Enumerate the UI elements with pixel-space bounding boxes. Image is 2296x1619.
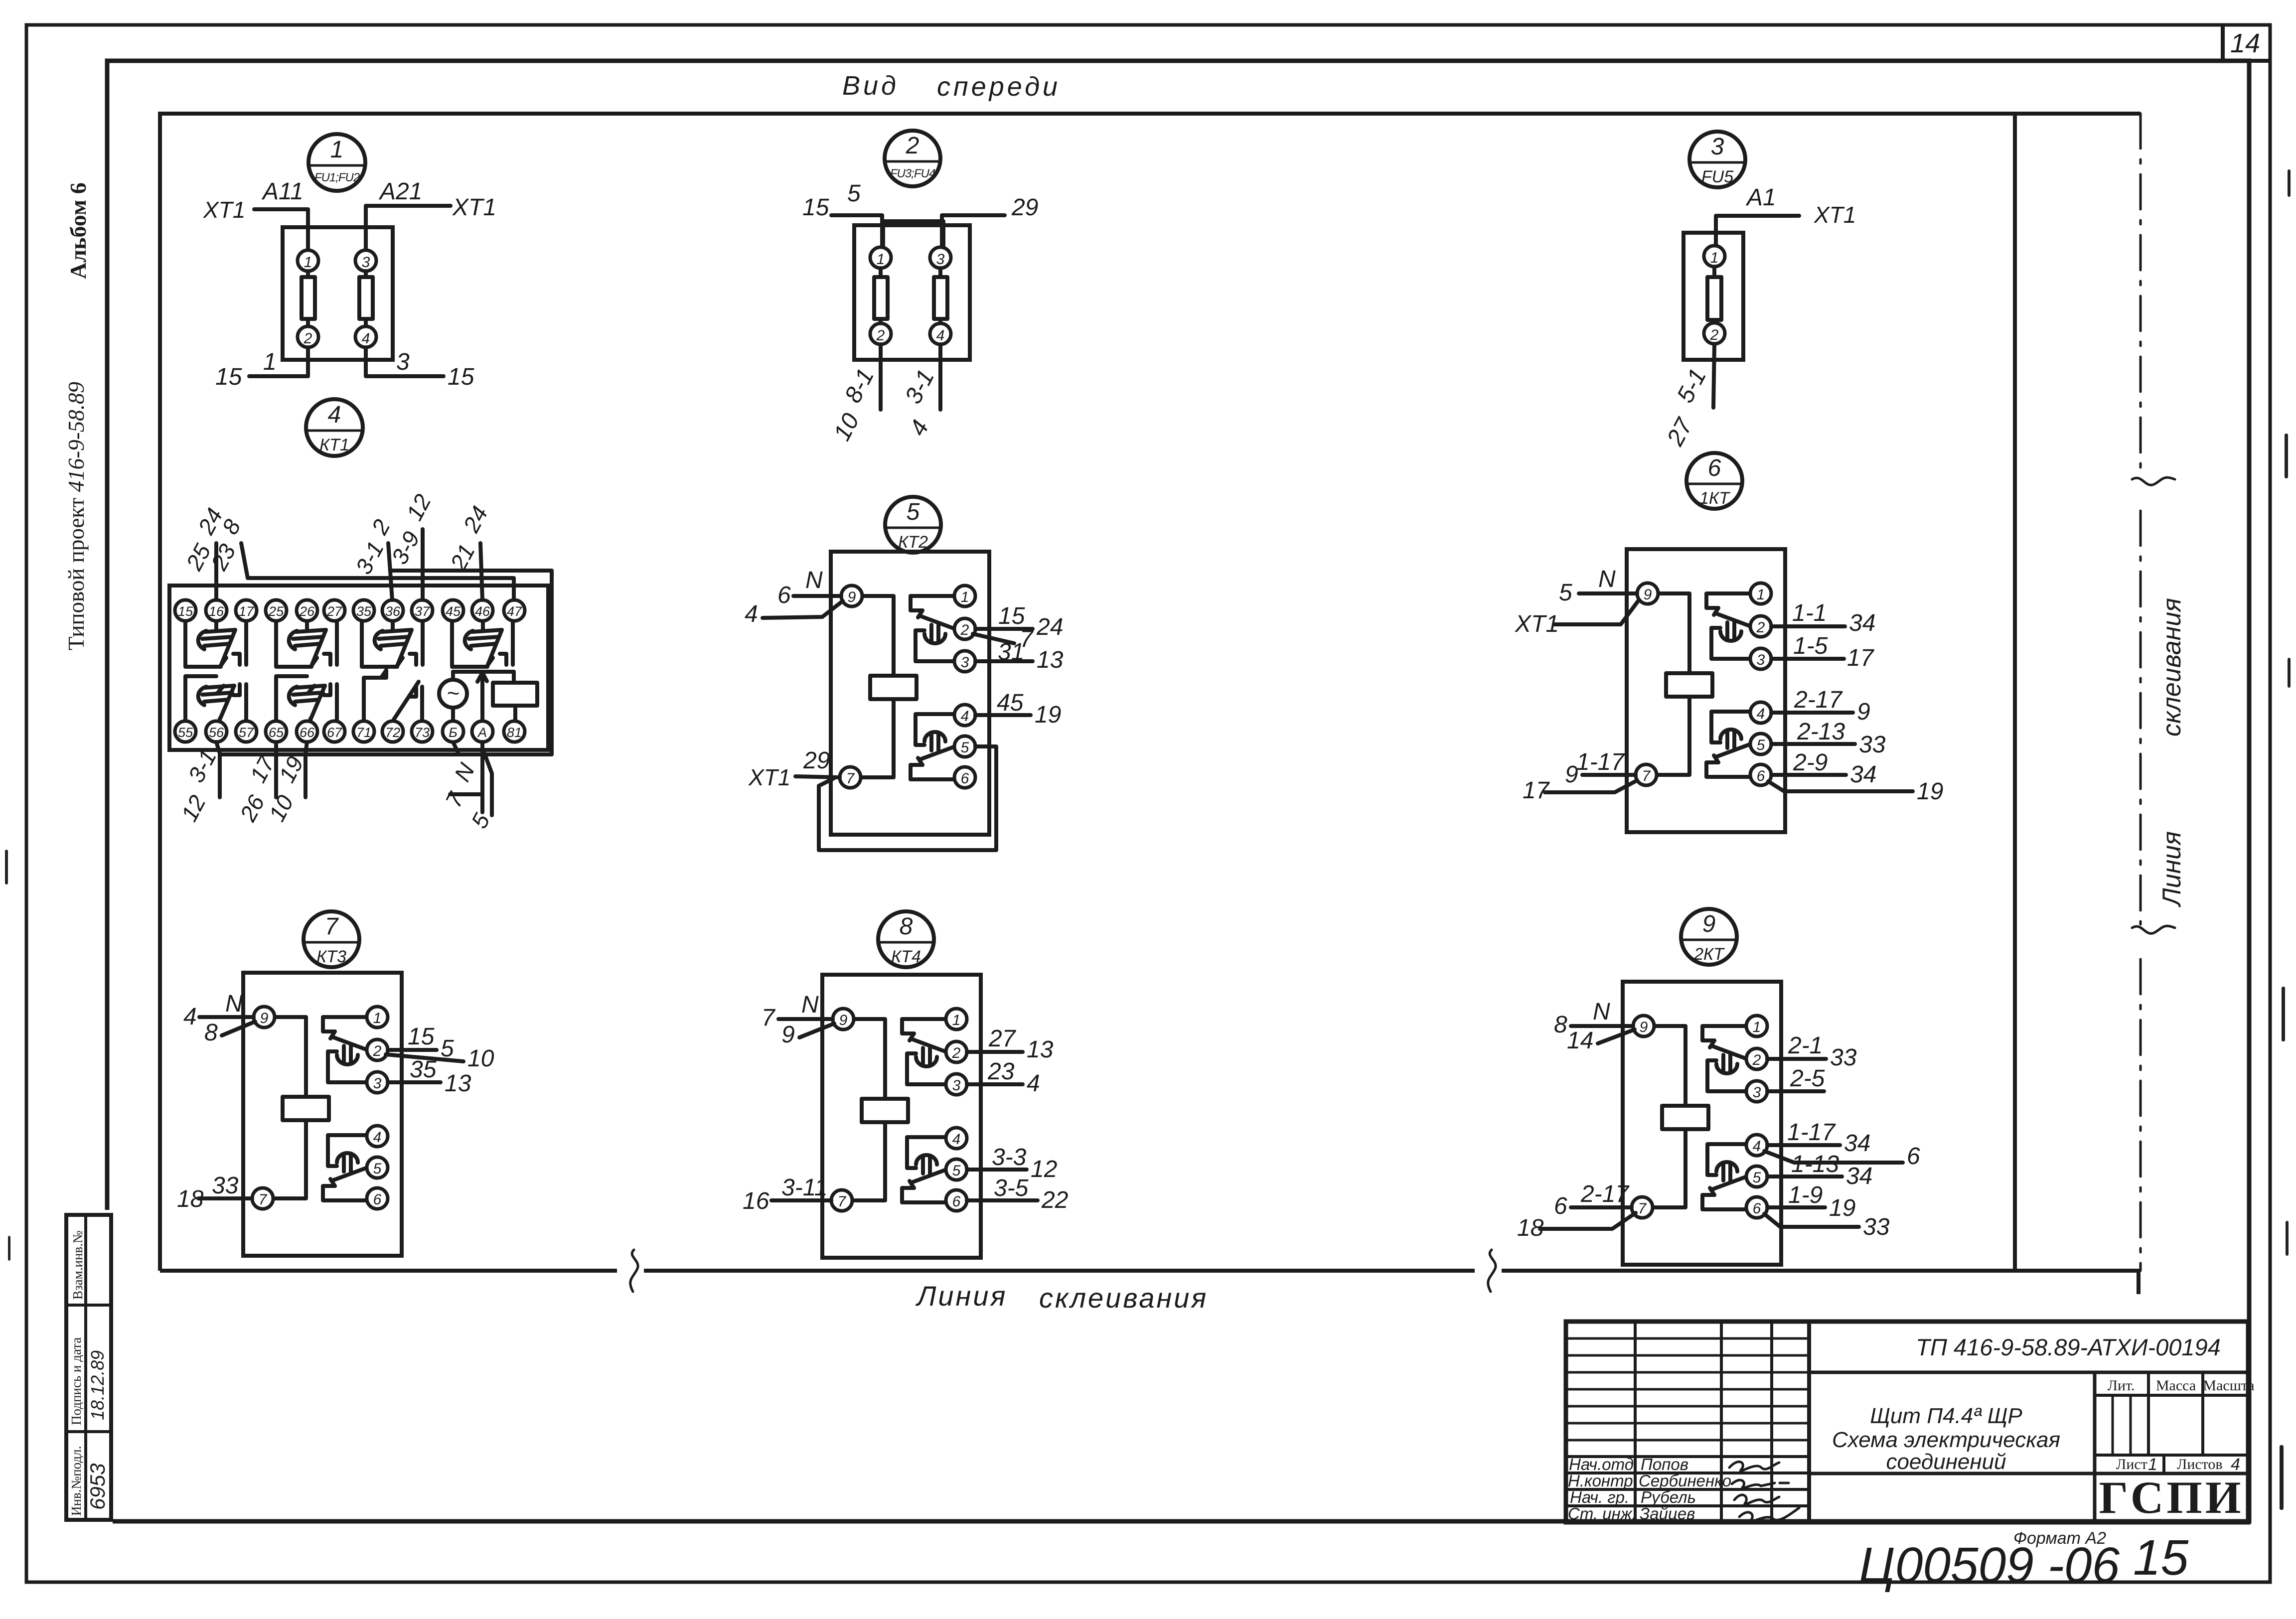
glue area frame: [160, 114, 2141, 1271]
1KT pin 1: [1750, 583, 1771, 604]
svg-text:5: 5: [847, 180, 861, 207]
svg-text:1: 1: [877, 251, 885, 268]
KT3 pin 1: [367, 1007, 388, 1028]
svg-text:ХТ1: ХТ1: [452, 194, 496, 221]
svg-text:1-9: 1-9: [1788, 1182, 1823, 1208]
page number cell 14: [2221, 25, 2225, 61]
svg-text:45: 45: [997, 690, 1024, 716]
svg-text:47: 47: [507, 604, 522, 619]
wire 3 to 15 bottom right: [366, 347, 444, 376]
svg-text:2: 2: [1752, 1052, 1761, 1068]
AC source element: [439, 680, 467, 708]
svg-text:9: 9: [1644, 587, 1652, 603]
svg-text:56: 56: [209, 725, 224, 740]
svg-text:6: 6: [1554, 1193, 1567, 1219]
KT4 pin 9: [833, 1009, 854, 1030]
svg-text:24: 24: [1036, 614, 1063, 640]
designator circle 7/KT3: [304, 911, 359, 967]
svg-text:25: 25: [268, 604, 284, 619]
svg-text:46: 46: [475, 604, 490, 619]
svg-text:4: 4: [373, 1129, 382, 1146]
svg-text:37: 37: [415, 604, 430, 619]
wire 25/24 to pin 16: [214, 543, 218, 600]
2KT contact group 4-5-6: [1702, 1144, 1747, 1209]
wire 5 to pin A: [484, 753, 492, 815]
svg-text:14: 14: [2230, 28, 2260, 58]
svg-text:3: 3: [362, 254, 370, 271]
1KT pin 7: [1636, 764, 1657, 785]
svg-text:Нач.отд: Нач.отд: [1569, 1455, 1634, 1473]
svg-text:2-17: 2-17: [1794, 687, 1843, 713]
svg-text:14: 14: [1567, 1028, 1593, 1054]
svg-text:15: 15: [2133, 1530, 2189, 1586]
KT4 pin 3: [946, 1074, 967, 1095]
svg-text:71: 71: [356, 725, 371, 740]
svg-text:~: ~: [447, 681, 459, 706]
svg-text:5: 5: [961, 739, 969, 756]
svg-text:ХТ1: ХТ1: [1814, 202, 1856, 228]
svg-text:Вид: Вид: [842, 71, 899, 101]
pin 1: [870, 247, 891, 268]
svg-text:6: 6: [1757, 768, 1765, 784]
svg-text:6: 6: [1907, 1143, 1920, 1170]
svg-text:4: 4: [952, 1131, 961, 1148]
left grid horizontals: [1566, 1337, 1809, 1340]
KT2 pin 4: [954, 705, 975, 726]
svg-text:склеивания: склеивания: [1039, 1282, 1208, 1314]
svg-text:13: 13: [445, 1070, 471, 1097]
svg-text:2-17: 2-17: [1580, 1181, 1630, 1207]
svg-text:1-17: 1-17: [1576, 749, 1625, 775]
svg-text:Ц00509 -06: Ц00509 -06: [1859, 1537, 2120, 1593]
2KT pin 4: [1746, 1135, 1767, 1156]
pin 1: [1704, 246, 1725, 267]
KT1 pin B slant wire: [453, 742, 459, 753]
1KT pin 9: [1637, 583, 1658, 604]
svg-text:2-5: 2-5: [1790, 1065, 1825, 1092]
svg-text:7: 7: [838, 1193, 847, 1210]
glue fold dash-dot line: [2140, 114, 2142, 476]
svg-text:19: 19: [1035, 702, 1061, 728]
svg-text:72: 72: [385, 725, 400, 740]
2KT contact group 1-2-3: [1702, 1026, 1747, 1091]
pin 1: [298, 250, 318, 271]
svg-text:ТП 416-9-58.89-АТХИ-00194: ТП 416-9-58.89-АТХИ-00194: [1916, 1334, 2221, 1360]
signatures scribbles: [1729, 1462, 1779, 1471]
svg-text:3-3: 3-3: [992, 1144, 1027, 1171]
right sub table: [2093, 1372, 2097, 1522]
svg-text:Лист: Лист: [2116, 1456, 2147, 1472]
wire 1 to 15 bottom left: [249, 347, 308, 376]
node line to coil: [453, 670, 514, 674]
svg-text:1: 1: [304, 254, 312, 271]
svg-text:34: 34: [1846, 1163, 1872, 1189]
fuse FU1: [306, 271, 310, 326]
KT2 pin 3: [954, 651, 975, 672]
KT3 pin 5: [367, 1157, 388, 1178]
KT4 pin 1: [946, 1009, 967, 1030]
svg-text:4: 4: [183, 1004, 197, 1030]
svg-text:N: N: [805, 567, 823, 593]
svg-text:3-11: 3-11: [781, 1175, 828, 1201]
svg-text:1: 1: [961, 589, 969, 605]
1KT pin 4: [1750, 702, 1771, 723]
2KT pin 1: [1746, 1016, 1767, 1036]
svg-text:16: 16: [743, 1188, 769, 1214]
svg-text:6: 6: [1753, 1200, 1761, 1217]
KT4 pin 2: [946, 1041, 967, 1062]
KT1 heater loop wire: [220, 571, 552, 754]
pin 3: [930, 247, 951, 268]
svg-text:А: А: [477, 725, 487, 740]
svg-text:45: 45: [446, 604, 461, 619]
svg-text:8: 8: [1554, 1012, 1567, 1038]
pin 2: [298, 326, 318, 347]
KT2 pin 7: [840, 767, 861, 788]
KT3 contact group 4-5-6: [323, 1135, 367, 1200]
svg-text:1: 1: [1753, 1019, 1761, 1035]
svg-text:Сербиненко: Сербиненко: [1639, 1472, 1731, 1490]
2KT pin 3: [1746, 1081, 1767, 1102]
svg-text:27: 27: [326, 604, 342, 619]
svg-text:7: 7: [1642, 768, 1651, 784]
svg-text:Лит.: Лит.: [2108, 1377, 2135, 1394]
svg-text:1: 1: [263, 349, 277, 375]
svg-text:2: 2: [960, 622, 969, 638]
svg-text:8: 8: [204, 1020, 218, 1046]
svg-text:1: 1: [373, 1010, 382, 1027]
svg-text:N: N: [225, 991, 243, 1017]
svg-text:29: 29: [803, 747, 830, 774]
wire 23/8 to pin 17 and pin 47: [241, 543, 514, 600]
svg-text:3: 3: [373, 1075, 382, 1092]
svg-text:Зайцев: Зайцев: [1640, 1504, 1695, 1523]
svg-text:13: 13: [1037, 647, 1064, 673]
svg-text:КТ4: КТ4: [891, 947, 921, 966]
svg-text:9: 9: [1640, 1019, 1648, 1035]
svg-text:FU1;FU2: FU1;FU2: [314, 171, 360, 184]
svg-text:4: 4: [2231, 1455, 2240, 1474]
svg-text:2: 2: [876, 327, 885, 344]
svg-text:2-1: 2-1: [1788, 1032, 1823, 1059]
svg-text:9: 9: [848, 589, 856, 605]
svg-text:6: 6: [373, 1191, 382, 1208]
svg-text:4: 4: [1027, 1070, 1040, 1097]
svg-text:4: 4: [328, 402, 341, 428]
1KT pin 5: [1750, 734, 1771, 754]
KT1 pins top row: [175, 600, 196, 621]
KT3 pin 6: [367, 1188, 388, 1209]
svg-text:ХТ1: ХТ1: [748, 764, 790, 790]
svg-text:2: 2: [952, 1045, 961, 1061]
KT3 pin 7: [252, 1188, 273, 1209]
svg-text:57: 57: [239, 725, 254, 740]
svg-text:9: 9: [1857, 699, 1870, 725]
1KT contact group 1-2-3: [1706, 593, 1751, 659]
KT3 pin 3: [367, 1072, 388, 1093]
svg-text:3: 3: [1757, 652, 1765, 668]
svg-text:33: 33: [212, 1173, 239, 1199]
KT2 contact group 4-5-6: [911, 714, 955, 779]
svg-text:Линия: Линия: [2157, 831, 2186, 907]
svg-text:2: 2: [373, 1043, 382, 1059]
svg-text:3-5: 3-5: [994, 1175, 1029, 1201]
svg-text:ХТ1: ХТ1: [203, 197, 245, 223]
wire 21/24 to pin 46: [480, 543, 482, 600]
svg-text:3: 3: [1711, 134, 1724, 160]
svg-text:15: 15: [215, 364, 242, 390]
svg-text:5: 5: [373, 1161, 382, 1177]
svg-text:3: 3: [1753, 1084, 1761, 1101]
svg-text:FU3;FU4: FU3;FU4: [890, 167, 935, 180]
svg-text:6: 6: [961, 770, 969, 787]
svg-text:1: 1: [952, 1012, 961, 1029]
1KT pin 2: [1750, 616, 1771, 637]
svg-text:23: 23: [987, 1058, 1015, 1085]
svg-text:N: N: [1598, 566, 1616, 592]
KT3 pin 9: [254, 1007, 275, 1028]
svg-text:Альбом 6: Альбом 6: [65, 182, 91, 279]
svg-text:Линия: Линия: [916, 1280, 1007, 1312]
svg-text:2КТ: 2КТ: [1693, 945, 1725, 964]
svg-text:34: 34: [1850, 761, 1876, 788]
svg-text:соединений: соединений: [1886, 1450, 2006, 1474]
svg-text:33: 33: [1859, 732, 1886, 758]
svg-text:спереди: спереди: [937, 72, 1061, 102]
designator circle 5/KT2: [885, 497, 941, 553]
1KT pin 6: [1750, 764, 1771, 785]
svg-text:Н.контр: Н.контр: [1568, 1472, 1633, 1490]
svg-text:N: N: [1593, 999, 1610, 1025]
wire 3-1/12 from pin 56: [216, 742, 220, 797]
contact 71-72-73: [364, 670, 386, 721]
svg-text:33: 33: [1830, 1044, 1857, 1071]
svg-text:13: 13: [1027, 1036, 1054, 1063]
left grid verticals: [1634, 1322, 1637, 1522]
wire 19/10 from pin 66: [306, 742, 307, 797]
KT3 pin 4: [367, 1126, 388, 1147]
svg-text:Типовой проект 416-9-58.89: Типовой проект 416-9-58.89: [64, 382, 89, 650]
svg-text:Масса: Масса: [2156, 1377, 2196, 1394]
svg-text:18.12.89: 18.12.89: [87, 1350, 108, 1420]
svg-text:29: 29: [1011, 194, 1038, 221]
break squiggle right: [1488, 1250, 1496, 1292]
svg-text:Попов: Попов: [1641, 1455, 1688, 1473]
svg-text:19: 19: [1917, 778, 1943, 805]
svg-text:4: 4: [961, 708, 969, 725]
svg-text:15: 15: [802, 194, 829, 221]
svg-text:8: 8: [900, 913, 913, 940]
KT4 pin 4: [946, 1128, 967, 1149]
fuse FU4: [938, 268, 942, 323]
break squiggle on fold line lower: [2132, 926, 2175, 933]
relay KT2 body: [831, 552, 989, 835]
svg-text:6: 6: [777, 582, 791, 608]
wire 17/26 from pin 65: [274, 742, 278, 797]
designator circle 9/2KT: [1681, 909, 1737, 965]
KT2 loop wire pin 5 around bottom: [819, 746, 996, 850]
contact 46-47: [452, 621, 513, 667]
svg-text:Б: Б: [449, 725, 458, 740]
designator circle 8/KT4: [878, 911, 934, 967]
svg-text:12: 12: [1031, 1156, 1057, 1182]
svg-text:1-5: 1-5: [1793, 633, 1828, 659]
wire 3-1/2 to pin 36: [388, 543, 392, 600]
svg-text:А1: А1: [1745, 184, 1776, 211]
svg-text:17: 17: [1847, 645, 1875, 671]
KT2 pin 2: [954, 618, 975, 639]
2KT pin 9: [1633, 1016, 1654, 1036]
fuse block body: [854, 225, 970, 360]
svg-text:81: 81: [507, 725, 522, 740]
svg-text:склеивания: склеивания: [2157, 598, 2186, 736]
svg-text:Ст. инж.: Ст. инж.: [1568, 1504, 1637, 1523]
svg-text:Взам.инв.№: Взам.инв.№: [70, 1230, 85, 1300]
svg-text:КТ3: КТ3: [316, 947, 346, 966]
svg-text:Схема электрическая: Схема электрическая: [1832, 1428, 2060, 1452]
svg-text:КТ1: КТ1: [319, 436, 349, 454]
svg-text:34: 34: [1849, 610, 1875, 636]
svg-text:Масшта: Масшта: [2203, 1377, 2254, 1394]
svg-text:1КТ: 1КТ: [1699, 489, 1730, 508]
svg-text:4: 4: [936, 327, 945, 344]
svg-text:2: 2: [304, 330, 312, 347]
svg-text:22: 22: [1041, 1187, 1068, 1213]
KT2 pin 1: [954, 586, 975, 606]
pin 4: [930, 323, 951, 344]
svg-text:9: 9: [781, 1022, 795, 1048]
wire 3-9/12 to pin 37: [421, 529, 425, 600]
svg-text:36: 36: [385, 604, 401, 619]
svg-text:67: 67: [327, 725, 342, 740]
svg-text:9: 9: [260, 1010, 269, 1027]
svg-text:34: 34: [1844, 1130, 1870, 1157]
svg-text:16: 16: [209, 604, 224, 619]
2KT pin 7: [1632, 1197, 1653, 1218]
pin 4: [355, 326, 376, 347]
svg-text:Инв.№подл.: Инв.№подл.: [69, 1446, 84, 1516]
svg-text:5: 5: [907, 499, 920, 525]
svg-text:Нач. гр.: Нач. гр.: [1570, 1488, 1629, 1506]
designator circle 3/FU5: [1689, 132, 1745, 187]
pin 2: [1704, 323, 1725, 344]
KT4 contact group 1-2-3: [902, 1019, 946, 1084]
svg-text:6953: 6953: [86, 1464, 109, 1510]
svg-text:10: 10: [467, 1045, 494, 1072]
KT4 pin 5: [946, 1159, 967, 1180]
svg-text:5: 5: [1757, 737, 1765, 753]
svg-text:4: 4: [745, 601, 758, 627]
wire 7/N to pin A: [480, 742, 484, 812]
svg-text:3: 3: [952, 1077, 961, 1094]
svg-text:7: 7: [846, 770, 855, 787]
2KT pin 6: [1746, 1197, 1767, 1218]
svg-text:1: 1: [330, 137, 344, 163]
KT1 body: [169, 586, 548, 750]
designator circle 1/FU1;FU2: [308, 134, 365, 191]
svg-text:15: 15: [408, 1024, 435, 1050]
svg-text:9: 9: [839, 1012, 848, 1029]
svg-text:FU5: FU5: [1701, 167, 1733, 186]
svg-text:7: 7: [325, 913, 339, 940]
fuse body: [1684, 233, 1743, 360]
svg-text:2: 2: [906, 133, 919, 159]
svg-text:2: 2: [1756, 619, 1765, 636]
svg-text:65: 65: [269, 725, 284, 740]
svg-text:Листов: Листов: [2177, 1456, 2223, 1472]
glue frame bottom line: [160, 1269, 617, 1273]
svg-text:1-13: 1-13: [1791, 1151, 1839, 1177]
KT4 pin 6: [946, 1190, 967, 1211]
svg-text:73: 73: [415, 725, 430, 740]
svg-text:27: 27: [988, 1026, 1017, 1052]
pin 3: [355, 250, 376, 271]
left stamp column table: [66, 1215, 111, 1520]
svg-text:1: 1: [1710, 250, 1719, 266]
2KT pin 2: [1746, 1048, 1767, 1069]
KT3 body: [243, 973, 402, 1256]
fuse FU5: [1712, 267, 1716, 323]
svg-text:5: 5: [952, 1163, 961, 1179]
contact 26-27: [276, 621, 337, 667]
svg-text:ГСПИ: ГСПИ: [2099, 1472, 2244, 1523]
break squiggle left: [630, 1250, 638, 1292]
svg-text:5: 5: [1559, 580, 1572, 606]
svg-text:А21: А21: [378, 178, 422, 205]
contact 36-37: [362, 621, 423, 667]
svg-text:2-9: 2-9: [1793, 749, 1828, 776]
contact 66-67: [276, 676, 337, 721]
svg-text:КТ2: КТ2: [898, 533, 928, 552]
wire 3-1/4 down right: [938, 344, 942, 410]
svg-text:3: 3: [961, 654, 969, 671]
1KT pin 3: [1750, 648, 1771, 669]
svg-text:1-1: 1-1: [1792, 600, 1827, 626]
svg-text:А11: А11: [261, 178, 304, 205]
fuse FU3: [879, 268, 883, 323]
jumper pin1-pin3: [883, 221, 943, 248]
svg-text:35: 35: [356, 604, 372, 619]
KT4 contact group 4-5-6: [902, 1137, 946, 1202]
glue frame right solid edge: [2013, 114, 2017, 1271]
svg-text:66: 66: [300, 725, 315, 740]
svg-text:35: 35: [410, 1056, 437, 1083]
svg-text:6: 6: [1708, 455, 1721, 481]
KT2 pin 9: [841, 586, 862, 606]
designator circle 2/FU3;FU4: [885, 131, 940, 186]
designator circle 4/KT1: [306, 399, 363, 456]
svg-text:3: 3: [936, 251, 945, 268]
KT2 pin 5: [954, 736, 975, 757]
KT3 pin 2: [367, 1039, 388, 1060]
wire 8-1/10 down left: [879, 344, 883, 410]
1KT body: [1627, 549, 1785, 832]
2KT pin 5: [1746, 1166, 1767, 1187]
KT2 contact group 1-2-3: [911, 596, 955, 661]
svg-text:19: 19: [1829, 1195, 1855, 1221]
contact 56-57: [185, 676, 246, 721]
1KT contact group 4-5-6: [1706, 712, 1751, 777]
svg-text:5: 5: [1753, 1170, 1761, 1186]
svg-text:Щит П4.4ª ЩР: Щит П4.4ª ЩР: [1870, 1404, 2022, 1428]
wire 5-1/27 down: [1713, 344, 1714, 408]
svg-text:N: N: [801, 992, 819, 1018]
svg-text:3: 3: [396, 349, 410, 375]
svg-text:15: 15: [448, 364, 474, 390]
KT4 pin 7: [831, 1190, 852, 1211]
svg-text:1-17: 1-17: [1787, 1119, 1836, 1146]
2KT body: [1623, 982, 1781, 1265]
